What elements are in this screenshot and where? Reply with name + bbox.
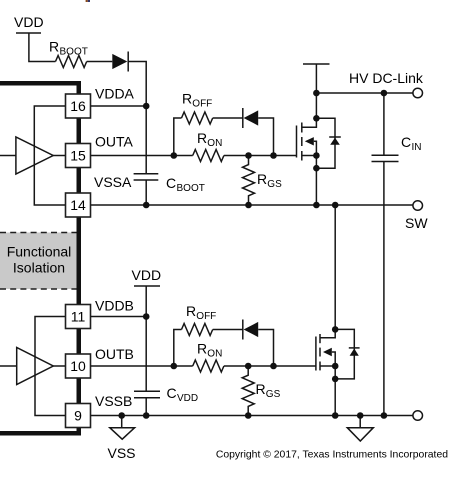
svg-text:BOOT: BOOT	[177, 183, 205, 194]
svg-text:R: R	[186, 303, 196, 319]
svg-text:VSSA: VSSA	[94, 174, 132, 190]
junction Q1 body diode bottom	[313, 165, 320, 172]
pin 10	[66, 354, 91, 378]
junction HV DC-Link drain	[313, 90, 320, 97]
op-amp buffer U1B	[17, 348, 54, 385]
wire CVDD lower stub	[145, 398, 147, 416]
junction Q1 source SW	[313, 202, 320, 209]
svg-text:R: R	[257, 171, 267, 187]
junction Q2 body diode bottom	[332, 376, 339, 383]
junction ROFF branch left (B)	[171, 363, 178, 370]
svg-text:VDDB: VDDB	[95, 298, 134, 314]
resistor RON (A)	[193, 150, 224, 162]
diode DBOOT (bootstrap diode)	[112, 54, 127, 69]
junction VSS ground	[118, 412, 125, 419]
wire CBOOT upper stub	[145, 106, 147, 174]
svg-text:OFF: OFF	[192, 99, 212, 110]
svg-text:VDD: VDD	[132, 267, 162, 283]
svg-text:OUTB: OUTB	[95, 346, 134, 362]
wire HV bar to Q1 drain	[315, 64, 317, 118]
svg-text:C: C	[401, 134, 411, 150]
svg-text:R: R	[197, 130, 207, 146]
transistor Q1 (high-side MOSFET)	[297, 118, 317, 160]
wire Q2 source to VSSB rail	[334, 366, 336, 416]
svg-text:C: C	[167, 385, 177, 401]
junction RGS bottom (B)	[245, 412, 252, 419]
wire RON to gate (B)	[224, 365, 316, 367]
wire RBOOT to DBOOT	[87, 61, 113, 63]
svg-text:ON: ON	[207, 138, 222, 149]
pin 14	[66, 193, 91, 217]
capacitor CBOOT	[134, 173, 159, 175]
wire VDD to VDDB node	[145, 286, 147, 317]
wire OUTB row	[91, 365, 193, 367]
svg-text:16: 16	[70, 98, 86, 114]
wire ROFF to DOFF (B)	[213, 329, 243, 331]
svg-text:ON: ON	[207, 349, 222, 360]
junction CIN bottom	[381, 412, 388, 419]
junction SW to Q2 drain	[332, 202, 339, 209]
svg-text:VSSB: VSSB	[95, 393, 132, 409]
svg-text:R: R	[49, 39, 59, 55]
wire ROFF branch right (A)	[258, 118, 273, 156]
op-amp buffer U1A	[16, 137, 53, 174]
junction RGS top (A)	[245, 152, 252, 159]
junction Q2 source rail	[332, 412, 339, 419]
ground power stage	[359, 416, 361, 428]
svg-text:10: 10	[70, 358, 86, 374]
junction VDDA-bootstrap	[143, 103, 150, 110]
junction CBOOT-VSSA	[143, 202, 150, 209]
junction Q2 source stub	[332, 363, 339, 370]
svg-text:Functional: Functional	[7, 244, 72, 260]
svg-text:VDD: VDD	[14, 14, 44, 30]
wire CBOOT lower stub	[145, 180, 147, 205]
wire DBOOT to VDDA node	[128, 62, 146, 107]
wire VSSB row	[91, 415, 413, 417]
svg-text:C: C	[166, 175, 176, 191]
svg-text:Isolation: Isolation	[13, 260, 65, 276]
junction ROFF branch left (A)	[171, 152, 178, 159]
svg-text:IN: IN	[412, 142, 422, 153]
stray cropped heading fragment	[86, 0, 88, 2]
wire Q1 source to SW	[315, 156, 317, 206]
svg-text:VDD: VDD	[177, 393, 198, 404]
svg-text:R: R	[182, 91, 192, 107]
wire Q2 drain from SW	[334, 205, 336, 329]
wire ROFF to DOFF (A)	[213, 117, 243, 119]
wire HV DC-Link row	[316, 92, 413, 94]
terminal HV DC-Link	[413, 88, 423, 98]
buffer U1A power rails	[34, 106, 65, 205]
wire body-diode branch (Q1)	[316, 118, 335, 168]
wire OUTA row	[91, 155, 193, 157]
IC gate driver body (partial, thick border)	[0, 81, 81, 436]
svg-text:BOOT: BOOT	[60, 47, 88, 58]
wire CIN lower	[383, 162, 385, 416]
svg-text:HV DC-Link: HV DC-Link	[349, 70, 424, 86]
wire CIN upper	[383, 93, 385, 155]
junction RGS top (B)	[245, 363, 252, 370]
wire body-diode branch (Q2)	[335, 329, 354, 379]
wire output A	[53, 155, 65, 157]
capacitor CVDD	[134, 390, 160, 392]
svg-text:14: 14	[70, 197, 86, 213]
junction Q1 drain / body diode	[313, 115, 320, 122]
wire ROFF branch right (B)	[258, 330, 273, 367]
junction power ground	[357, 412, 364, 419]
body diode D2	[349, 347, 360, 349]
wire output B	[53, 365, 65, 367]
terminal SW	[413, 201, 423, 211]
svg-text:OFF: OFF	[196, 311, 216, 322]
pin 15	[66, 144, 91, 168]
buffer U1B power rails	[35, 317, 66, 416]
wire VSSA / SW row	[91, 204, 413, 206]
resistor RBOOT	[56, 56, 87, 68]
junction ROFF branch right (B)	[270, 363, 277, 370]
wire VDD to RBOOT	[29, 33, 56, 62]
ground VSS	[121, 416, 123, 428]
pin 9	[66, 404, 91, 428]
svg-text:VDDA: VDDA	[95, 86, 135, 102]
functional isolation region	[0, 233, 77, 290]
junction Q2 drain / body diode	[332, 326, 339, 333]
body diode D1	[329, 136, 341, 138]
svg-text:OUTA: OUTA	[95, 134, 134, 150]
wire ROFF branch left (A)	[174, 118, 182, 156]
junction RGS bottom (A)	[245, 202, 252, 209]
svg-text:11: 11	[71, 309, 86, 325]
junction CIN top	[381, 90, 388, 97]
resistor ROFF (A)	[182, 112, 213, 124]
resistor ROFF (B)	[182, 324, 213, 336]
junction VDDB supply	[143, 313, 150, 320]
resistor RGS (B)	[242, 366, 254, 416]
resistor RGS (A)	[243, 156, 255, 206]
capacitor CIN	[372, 154, 399, 156]
svg-text:15: 15	[70, 148, 86, 164]
wire RON to gate (A)	[224, 155, 297, 157]
svg-text:9: 9	[74, 408, 82, 424]
svg-text:R: R	[256, 381, 266, 397]
junction ROFF branch right (A)	[270, 152, 277, 159]
wire CVDD upper stub	[145, 317, 147, 392]
wire ROFF branch left (B)	[174, 330, 182, 367]
transistor Q2 (low-side MOSFET)	[316, 329, 335, 370]
svg-text:SW: SW	[405, 215, 428, 231]
power rail bar HV DC-Link	[303, 63, 330, 65]
pin 16	[66, 94, 91, 118]
terminal negative rail	[413, 411, 423, 421]
pin 11	[66, 305, 91, 329]
junction CVDD bottom	[143, 412, 150, 419]
diode DOFF (A)	[242, 108, 244, 128]
wire VDDB row	[91, 316, 147, 318]
svg-text:GS: GS	[267, 179, 282, 190]
svg-text:R: R	[197, 341, 207, 357]
wire VDDA row	[91, 105, 147, 107]
svg-text:VSS: VSS	[108, 445, 136, 461]
wire input A	[0, 155, 16, 157]
diode DOFF (B)	[242, 320, 244, 340]
wire input B	[0, 365, 17, 367]
junction Q1 source stub	[313, 152, 320, 159]
svg-text:Copyright © 2017, Texas Instru: Copyright © 2017, Texas Instruments Inco…	[216, 450, 448, 461]
resistor RON (B)	[193, 360, 224, 372]
svg-text:GS: GS	[266, 389, 281, 400]
